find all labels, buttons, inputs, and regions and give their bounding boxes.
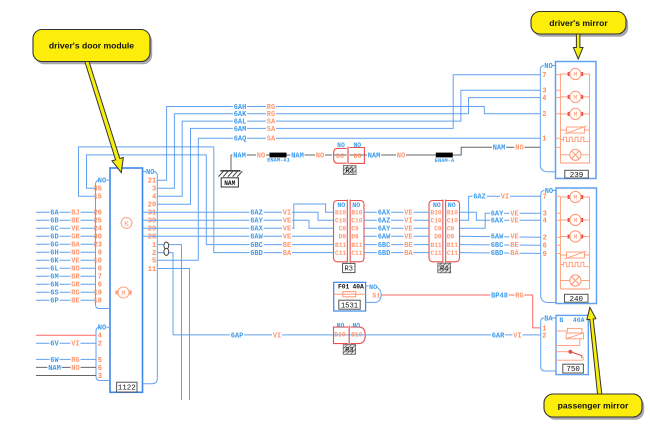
- ground symbol NAM: [230, 155, 232, 171]
- wire 6BC-BE from R3 B11 to pin6 of 240: [460, 244, 541, 247]
- red wire BP48-RG from fuse S1 to pin1 of 750: [381, 295, 540, 328]
- svg-text:23: 23: [94, 242, 102, 250]
- pin numbers of 240: [543, 194, 547, 259]
- svg-text:15: 15: [94, 194, 102, 202]
- svg-text:11: 11: [148, 266, 156, 274]
- svg-text:2: 2: [542, 332, 546, 340]
- svg-text:6B: 6B: [50, 218, 59, 226]
- svg-text:B11: B11: [431, 242, 442, 249]
- lower-left connector bracket NO of 1122: [107, 326, 111, 328]
- wire 6AW-VE from R4 D9 to pin2 of 240: [460, 236, 541, 237]
- connector bracket BA of 750: [551, 317, 556, 319]
- svg-text:C11: C11: [431, 250, 442, 257]
- svg-text:BE: BE: [71, 298, 79, 306]
- svg-text:BE: BE: [71, 218, 79, 226]
- wire 6AY-VE from R4 C9 to pin3 of 240: [460, 213, 541, 228]
- svg-text:M: M: [573, 71, 577, 78]
- svg-text:6AY: 6AY: [250, 218, 263, 226]
- svg-text:10: 10: [94, 258, 102, 266]
- svg-text:VE: VE: [404, 234, 412, 242]
- svg-text:39: 39: [148, 218, 156, 226]
- svg-text:6AY: 6AY: [378, 226, 391, 234]
- wire 6BD-BA between R3 and R4: [364, 252, 429, 254]
- motor symbol M inside 1122: [116, 287, 132, 298]
- relay switch inside 750: [556, 345, 580, 347]
- svg-text:D9: D9: [351, 234, 359, 241]
- wire 6H-NO to pin left of 1122: [36, 251, 96, 253]
- svg-text:NAM: NAM: [291, 152, 304, 160]
- svg-text:1122: 1122: [118, 385, 136, 393]
- wire 6AM-SA pin20 of 1122 to pin7 of 239: [157, 75, 540, 205]
- svg-text:4: 4: [98, 333, 102, 341]
- svg-text:RG: RG: [71, 290, 79, 298]
- wire 6AL-SA pin4 of 1122 to pin3 of 239: [157, 90, 540, 196]
- svg-text:B10: B10: [335, 210, 346, 217]
- svg-text:NO: NO: [98, 325, 106, 333]
- svg-text:30: 30: [94, 234, 102, 242]
- splice ENAM-A1: [270, 153, 287, 158]
- svg-text:6BD: 6BD: [250, 250, 263, 258]
- wire 6AZ-VI pin31 of 1122 to R3 C10: [143, 212, 334, 220]
- label 750: [563, 364, 584, 373]
- svg-text:19: 19: [94, 290, 102, 298]
- svg-text:D10: D10: [334, 331, 345, 338]
- svg-text:6AZ: 6AZ: [250, 210, 263, 218]
- svg-text:6BD: 6BD: [378, 250, 391, 258]
- svg-text:6AY: 6AY: [491, 211, 504, 219]
- svg-text:GR: GR: [71, 234, 80, 242]
- svg-text:C10: C10: [335, 218, 346, 225]
- svg-text:C11: C11: [351, 250, 362, 257]
- svg-text:6: 6: [543, 243, 547, 251]
- svg-text:driver's mirror: driver's mirror: [549, 18, 608, 28]
- svg-text:VE: VE: [404, 226, 412, 234]
- svg-text:18: 18: [94, 298, 102, 306]
- callout passenger mirror: [546, 397, 644, 420]
- svg-text:C9: C9: [339, 226, 347, 233]
- svg-text:4: 4: [542, 95, 546, 103]
- svg-text:B11: B11: [447, 242, 458, 249]
- svg-text:NAM: NAM: [233, 152, 246, 160]
- svg-text:SA: SA: [267, 136, 276, 144]
- svg-text:240: 240: [569, 296, 583, 304]
- svg-text:7: 7: [543, 194, 547, 202]
- label 6BC-BE on wire to R3 B11: [249, 241, 263, 248]
- wire 6M-BR to pin left of 1122: [36, 275, 96, 277]
- wire NAM-NO to pin 6 of 1122: [36, 366, 96, 368]
- upper-left connector bracket NO of 1122: [107, 179, 111, 181]
- svg-text:8: 8: [98, 266, 102, 274]
- pin numbers on lower-left connector of 1122: [98, 333, 102, 381]
- driver's door module box 1122: [110, 168, 143, 392]
- svg-text:6AX: 6AX: [250, 226, 263, 234]
- svg-text:VI: VI: [283, 210, 291, 218]
- wire 6W-RG to pin 5 of 1122: [36, 358, 96, 360]
- svg-text:7: 7: [542, 72, 546, 80]
- svg-text:6BC: 6BC: [250, 242, 263, 250]
- svg-text:D10: D10: [351, 331, 362, 338]
- label 240: [565, 294, 589, 302]
- pin numbers on right connector of 1122: [148, 178, 156, 274]
- svg-text:9: 9: [98, 250, 102, 258]
- svg-text:B10: B10: [431, 210, 442, 217]
- pin numbers on upper-left connector of 1122: [94, 186, 102, 306]
- wire 6L-NO to pin left of 1122: [36, 267, 96, 269]
- svg-text:1531: 1531: [341, 302, 358, 310]
- wire 6AQ-SA pin5 of 1122 to pin1 of 239: [157, 138, 540, 260]
- svg-text:6W: 6W: [50, 357, 59, 365]
- svg-text:M: M: [573, 111, 577, 118]
- svg-text:D9: D9: [339, 234, 347, 241]
- wire pin11 of 1122 down: [157, 269, 189, 401]
- svg-text:BA: BA: [510, 250, 519, 258]
- svg-text:ENAM-A1: ENAM-A1: [267, 158, 290, 164]
- wire pin2 of 1122 to 6AP wire: [157, 253, 173, 335]
- passenger mirror box 240: [556, 188, 597, 304]
- wire NAM-NO from splice ENAM-A1 to connector R3 D6: [287, 154, 333, 156]
- svg-text:B11: B11: [351, 242, 362, 249]
- svg-text:VE: VE: [510, 211, 518, 219]
- connector R3 pin D10 (lower): [334, 334, 366, 336]
- label 6BD-BA on wire to R3 C11: [249, 249, 263, 256]
- ground label box NAM: [221, 178, 238, 187]
- svg-text:ENAM-A: ENAM-A: [435, 158, 455, 164]
- svg-text:M: M: [573, 217, 577, 224]
- svg-text:VE: VE: [71, 258, 79, 266]
- svg-text:6AR: 6AR: [492, 332, 505, 340]
- svg-text:6AW: 6AW: [250, 234, 263, 242]
- svg-text:6AW: 6AW: [491, 234, 504, 242]
- wire 6P-BE to pin left of 1122: [36, 299, 96, 301]
- svg-text:F01: F01: [338, 284, 350, 291]
- wire 6AX-VE from R4 B10 to pin4 of 240: [460, 212, 541, 220]
- wire 6N-GR to pin left of 1122: [36, 283, 96, 285]
- svg-text:C9: C9: [434, 226, 442, 233]
- svg-text:VE: VE: [404, 210, 412, 218]
- svg-text:SA: SA: [267, 126, 276, 134]
- svg-text:B11: B11: [335, 242, 346, 249]
- svg-text:5: 5: [98, 357, 102, 365]
- svg-text:4: 4: [543, 218, 547, 226]
- svg-text:2: 2: [542, 111, 546, 119]
- wire 6S-RG to pin left of 1122: [36, 291, 96, 293]
- svg-text:6AX: 6AX: [378, 210, 391, 218]
- wire 6B-BE to pin left of 1122: [36, 219, 96, 221]
- wire 6AX-VE between R3 and R4: [364, 211, 429, 213]
- svg-text:R3: R3: [345, 266, 353, 274]
- svg-text:6AW: 6AW: [378, 234, 391, 242]
- fuse symbol F01: [334, 293, 366, 295]
- svg-text:NO: NO: [352, 202, 360, 209]
- svg-text:BE: BE: [404, 242, 412, 250]
- svg-text:B: B: [559, 317, 563, 324]
- svg-text:NO: NO: [544, 63, 552, 71]
- electronic unit symbol K inside 1122: [121, 218, 133, 229]
- svg-text:NO: NO: [146, 169, 154, 177]
- svg-text:20: 20: [148, 202, 156, 210]
- svg-text:R4: R4: [440, 266, 448, 274]
- svg-text:passenger mirror: passenger mirror: [558, 401, 629, 411]
- svg-text:C9: C9: [447, 226, 455, 233]
- svg-text:BA: BA: [71, 242, 80, 250]
- svg-text:2: 2: [98, 341, 102, 349]
- svg-text:BA: BA: [544, 315, 553, 323]
- connector bracket NO of 240: [553, 190, 556, 192]
- connector R3 pin D6: [334, 154, 347, 156]
- svg-text:VI: VI: [501, 194, 509, 202]
- right connector bracket NO of 1122: [143, 171, 147, 173]
- svg-text:35: 35: [94, 186, 102, 194]
- svg-text:BE: BE: [510, 242, 518, 250]
- wire loop from pin 35 of 1122 to node 6BC: [87, 155, 334, 245]
- svg-text:40A: 40A: [353, 284, 365, 291]
- svg-text:1: 1: [152, 242, 156, 250]
- fuse output bracket NO S1: [366, 285, 369, 287]
- wire 6AR-VI from lower R3 D10 to pin2 of 750: [365, 334, 540, 336]
- svg-text:NAM: NAM: [493, 145, 506, 153]
- driver's mirror box 239: [556, 62, 597, 179]
- svg-text:NO: NO: [433, 202, 441, 209]
- svg-text:6: 6: [98, 365, 102, 373]
- wire NAM-NO from splice ENAM-A to unnamed pin of 239: [453, 147, 541, 155]
- svg-text:9: 9: [543, 251, 547, 259]
- svg-text:C10: C10: [447, 218, 458, 225]
- wire 6C-VE to pin left of 1122: [36, 227, 96, 229]
- wire 6AW-VE between R3 and R4: [364, 235, 429, 237]
- svg-text:VE: VE: [283, 218, 291, 226]
- svg-text:VE: VE: [510, 234, 518, 242]
- svg-text:NO: NO: [71, 250, 79, 258]
- svg-text:6K: 6K: [50, 258, 59, 266]
- svg-text:6N: 6N: [50, 282, 58, 290]
- splice ENAM-A: [436, 153, 453, 158]
- wire NAM-NO from connector R3 D6 to splice ENAM-A: [364, 154, 436, 156]
- svg-text:BR: BR: [71, 274, 80, 282]
- svg-text:750: 750: [566, 366, 580, 374]
- svg-text:6BD: 6BD: [491, 250, 504, 258]
- twisted pair symbol on pins 1-2: [164, 242, 169, 249]
- svg-text:6G: 6G: [50, 242, 58, 250]
- svg-text:D6: D6: [336, 153, 344, 160]
- svg-text:BJ: BJ: [71, 210, 79, 218]
- svg-text:BA: BA: [404, 250, 413, 258]
- svg-text:NO: NO: [397, 152, 405, 160]
- svg-text:28: 28: [148, 234, 156, 242]
- svg-text:3: 3: [98, 373, 102, 381]
- svg-text:6AM: 6AM: [234, 126, 247, 134]
- svg-text:RG: RG: [515, 292, 523, 300]
- svg-text:NO: NO: [448, 202, 456, 209]
- svg-text:2: 2: [543, 235, 547, 243]
- svg-text:3: 3: [152, 186, 156, 194]
- svg-text:NO: NO: [71, 266, 79, 274]
- label 239: [565, 170, 589, 178]
- svg-text:VE: VE: [283, 234, 291, 242]
- wire 6BD-BA from R3 C11 to pin9 of 240: [460, 252, 541, 255]
- svg-text:R3: R3: [345, 168, 353, 176]
- wire 6AY-VE pin39 of 1122 to R3 C9: [143, 220, 334, 228]
- label R3 of connector D6: [344, 166, 356, 174]
- svg-text:VI: VI: [71, 341, 79, 349]
- wire 6G-BA to pin left of 1122: [36, 243, 96, 245]
- svg-text:6AP: 6AP: [231, 332, 244, 340]
- connector R3: [334, 201, 348, 262]
- svg-text:6L: 6L: [50, 266, 58, 274]
- svg-text:driver's door module: driver's door module: [49, 41, 134, 51]
- svg-text:VI: VI: [273, 332, 281, 340]
- svg-text:6AZ: 6AZ: [473, 194, 486, 202]
- svg-text:K: K: [124, 221, 129, 229]
- svg-text:BA: BA: [283, 250, 292, 258]
- svg-text:D6: D6: [354, 153, 362, 160]
- wire loop from pin 15 of 1122 to node 6BD: [79, 147, 334, 253]
- wire 6AZ-VI from R4 C10 to pin7 of 240: [460, 196, 541, 220]
- wire 6AH-RG pin21 of 1122 to pin2 of 239: [157, 107, 540, 181]
- svg-text:B10: B10: [447, 210, 458, 217]
- label R3 of connector D10: [343, 345, 355, 354]
- svg-text:VI: VI: [513, 332, 521, 340]
- svg-text:NO: NO: [337, 322, 345, 329]
- svg-text:1: 1: [542, 136, 546, 144]
- mirror symbols inside 240: [556, 195, 560, 197]
- svg-text:6D: 6D: [50, 234, 58, 242]
- svg-text:NO: NO: [316, 152, 324, 160]
- gray wire to pin 3 of 1122: [36, 375, 96, 377]
- svg-text:5: 5: [152, 258, 156, 266]
- svg-text:BE: BE: [283, 242, 291, 250]
- svg-text:6M: 6M: [50, 274, 58, 282]
- wire 6V-VI to pin 2 of 1122: [36, 342, 96, 344]
- svg-text:7: 7: [98, 274, 102, 282]
- svg-text:D9: D9: [434, 234, 442, 241]
- svg-text:NO: NO: [71, 365, 79, 373]
- wire 6AK-RG pin3 of 1122 to pin4 of 239: [157, 98, 540, 189]
- wire 6AP-VI from pin2 of 1122 to lower R3 D10: [173, 334, 334, 336]
- svg-text:6C: 6C: [50, 226, 58, 234]
- svg-text:NO: NO: [352, 322, 360, 329]
- wire pin1 of 1122 down: [157, 245, 181, 400]
- relay box 750: [556, 315, 588, 374]
- svg-text:GR: GR: [71, 282, 80, 290]
- callout driver's door module: [35, 32, 152, 64]
- svg-text:26: 26: [94, 210, 102, 218]
- svg-text:RG: RG: [71, 357, 79, 365]
- svg-text:NO: NO: [369, 284, 377, 292]
- svg-text:6A: 6A: [50, 210, 59, 218]
- svg-text:C11: C11: [335, 250, 346, 257]
- svg-text:B10: B10: [351, 210, 362, 217]
- connector bracket NO of 239: [552, 65, 555, 67]
- svg-text:VE: VE: [71, 226, 79, 234]
- svg-text:VI: VI: [404, 218, 412, 226]
- svg-text:6S: 6S: [50, 290, 58, 298]
- svg-text:25: 25: [94, 218, 102, 226]
- wire 6AZ-VI between R3 and R4: [364, 219, 429, 221]
- svg-text:NAM: NAM: [48, 365, 61, 373]
- relay coil inside 750: [556, 330, 567, 332]
- svg-text:NAM: NAM: [368, 152, 381, 160]
- svg-text:VE: VE: [510, 218, 518, 226]
- fuse box 1531: [334, 282, 366, 311]
- pin numbers of 239: [542, 72, 546, 144]
- wire 6AX-VE pin29 of 1122 to R3 B10: [143, 204, 334, 228]
- label 1122: [117, 382, 137, 392]
- svg-text:40A: 40A: [573, 317, 585, 324]
- svg-text:C11: C11: [447, 250, 458, 257]
- svg-text:6P: 6P: [50, 298, 58, 306]
- svg-text:239: 239: [570, 172, 584, 180]
- wire 6AY-VE between R3 and R4: [364, 227, 429, 229]
- wire 6AW-VE pin28 of 1122 to R3 D9: [143, 235, 334, 237]
- svg-text:M: M: [573, 94, 577, 101]
- svg-text:R3: R3: [345, 347, 353, 355]
- svg-text:21: 21: [148, 178, 156, 186]
- label 1531: [339, 300, 360, 309]
- svg-text:24: 24: [94, 226, 102, 234]
- svg-text:6V: 6V: [50, 341, 59, 349]
- svg-text:6H: 6H: [50, 250, 58, 258]
- wire NAM-NO from ground to splice ENAM-A1: [231, 154, 271, 156]
- svg-text:VE: VE: [283, 226, 291, 234]
- svg-text:C10: C10: [351, 218, 362, 225]
- svg-text:M: M: [573, 194, 577, 201]
- svg-text:6AQ: 6AQ: [234, 136, 247, 144]
- svg-text:C9: C9: [351, 226, 359, 233]
- svg-text:29: 29: [148, 226, 156, 234]
- svg-text:NO: NO: [515, 145, 523, 153]
- svg-text:6AZ: 6AZ: [378, 218, 391, 226]
- svg-text:M: M: [121, 290, 125, 298]
- connector R4: [429, 201, 443, 262]
- svg-text:31: 31: [148, 210, 156, 218]
- svg-text:6BC: 6BC: [491, 242, 504, 250]
- wire 6D-GR to pin left of 1122: [36, 235, 96, 237]
- svg-text:NO: NO: [353, 142, 361, 149]
- svg-text:NO: NO: [337, 202, 345, 209]
- svg-text:6BC: 6BC: [378, 242, 391, 250]
- svg-text:4: 4: [152, 194, 156, 202]
- svg-text:BP48: BP48: [491, 292, 508, 300]
- wire 6K-VE to pin left of 1122: [36, 259, 96, 261]
- svg-text:M: M: [573, 234, 577, 241]
- wire 6BC-BE between R3 and R4: [364, 244, 429, 246]
- svg-text:6AX: 6AX: [491, 218, 504, 226]
- svg-text:6: 6: [98, 282, 102, 290]
- svg-text:NO: NO: [98, 178, 106, 186]
- wire 6A-BJ to pin left of 1122: [36, 211, 96, 213]
- svg-text:D9: D9: [447, 234, 455, 241]
- callout driver's mirror: [533, 14, 628, 37]
- svg-text:NO: NO: [257, 152, 265, 160]
- mirror symbols inside 239: [556, 74, 561, 76]
- svg-text:NO: NO: [337, 142, 345, 149]
- svg-text:S1: S1: [372, 293, 380, 301]
- svg-text:NAM: NAM: [224, 180, 235, 187]
- red wire to pin 4 of 1122: [36, 334, 96, 336]
- svg-text:C10: C10: [431, 218, 442, 225]
